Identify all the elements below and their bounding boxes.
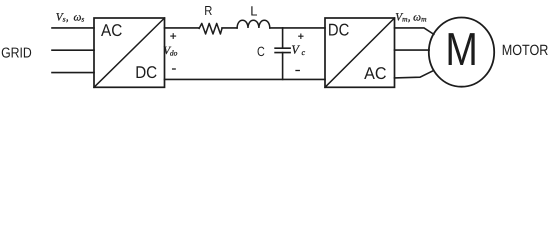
wire motor phase A [395, 28, 434, 34]
wire motor phase C [395, 71, 434, 78]
svg-text:GRID: GRID [1, 46, 32, 62]
wire dc link top right [270, 27, 325, 29]
wire grid phase A [52, 27, 94, 29]
svg-text:AC: AC [101, 21, 122, 40]
svg-text:R: R [204, 3, 212, 18]
svg-text:Vdo: Vdo [163, 45, 177, 58]
converter U1 AC/DC rectifier box [94, 18, 165, 87]
wire dc link bottom [165, 78, 326, 80]
wire dc link top left [165, 27, 199, 29]
svg-text:M: M [445, 23, 478, 75]
svg-text:MOTOR: MOTOR [502, 43, 549, 59]
wire motor phase B [395, 49, 430, 51]
svg-text:Vc: Vc [291, 43, 305, 58]
svg-text:C: C [257, 44, 265, 59]
svg-text:DC: DC [328, 20, 349, 39]
label - (Vc minus) [296, 70, 299, 72]
svg-text:L: L [250, 4, 257, 19]
resistor R [199, 23, 222, 34]
wire capacitor bottom [282, 53, 284, 80]
wire grid phase B [52, 49, 94, 51]
label - (Vdo minus) [173, 68, 176, 70]
converter U2 DC/AC inverter box [325, 18, 395, 87]
svg-text:Vm,ωm: Vm,ωm [395, 11, 427, 23]
svg-text:AC: AC [364, 64, 386, 83]
wire grid phase C [52, 72, 94, 74]
inductor L [237, 20, 270, 28]
capacitor C [275, 48, 290, 52]
label + (Vc plus) [299, 34, 303, 38]
svg-text:Vs,ωs: Vs,ωs [56, 11, 85, 23]
motor M1 circle [429, 18, 494, 87]
label + (Vdo plus) [171, 34, 176, 39]
wire between R and L [222, 27, 237, 29]
svg-text:DC: DC [135, 63, 157, 82]
node capacitor top junction [282, 28, 284, 48]
